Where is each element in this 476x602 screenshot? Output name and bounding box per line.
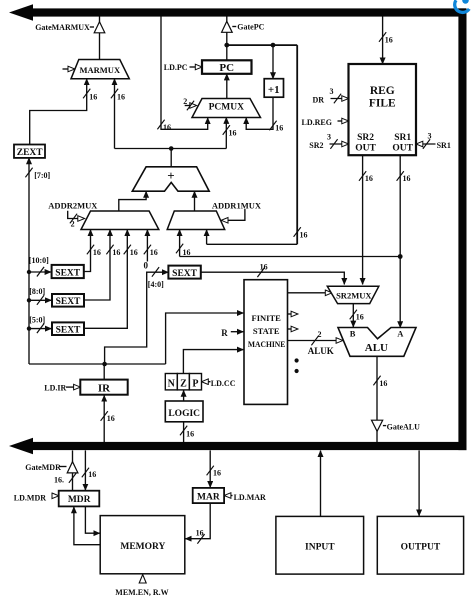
svg-text:16: 16 — [229, 128, 237, 137]
svg-text:REG: REG — [370, 85, 395, 97]
svg-text:16: 16 — [186, 430, 194, 439]
svg-text:N: N — [168, 378, 176, 389]
svg-text:LD.MAR: LD.MAR — [234, 493, 266, 502]
svg-text:LOGIC: LOGIC — [168, 409, 200, 419]
svg-text:16: 16 — [385, 36, 393, 45]
svg-text:LD.IR: LD.IR — [44, 384, 66, 393]
svg-text:SEXT: SEXT — [56, 326, 81, 336]
svg-text:MEM.EN, R.W: MEM.EN, R.W — [115, 588, 168, 597]
svg-text:INPUT: INPUT — [305, 542, 335, 552]
svg-text:MACHINE: MACHINE — [248, 339, 286, 349]
svg-text:2: 2 — [183, 97, 187, 106]
svg-text:DR: DR — [313, 95, 325, 104]
svg-text:SR2MUX: SR2MUX — [336, 290, 372, 300]
svg-text:R: R — [221, 328, 228, 338]
svg-text:16: 16 — [150, 248, 158, 257]
svg-text:16.: 16. — [54, 475, 64, 484]
svg-text:3: 3 — [428, 132, 432, 141]
svg-text:ADDR1MUX: ADDR1MUX — [212, 200, 262, 210]
svg-text:GatePC: GatePC — [237, 22, 264, 31]
svg-text:+1: +1 — [268, 84, 280, 96]
svg-text:2: 2 — [318, 330, 322, 339]
svg-text:OUT: OUT — [392, 144, 413, 154]
svg-text:SEXT: SEXT — [55, 268, 80, 278]
svg-text:Z: Z — [180, 378, 187, 389]
svg-text:16: 16 — [300, 231, 308, 240]
svg-text:16: 16 — [112, 248, 120, 257]
svg-text:MDR: MDR — [68, 495, 91, 505]
svg-text:B: B — [350, 328, 356, 338]
svg-text:SR2: SR2 — [309, 141, 323, 150]
svg-text:LD.CC: LD.CC — [211, 379, 236, 388]
svg-text:OUT: OUT — [355, 144, 376, 154]
svg-text:3: 3 — [330, 87, 334, 96]
svg-text:0: 0 — [144, 261, 149, 271]
svg-text:GateMARMUX: GateMARMUX — [35, 23, 90, 32]
svg-text:MEMORY: MEMORY — [120, 542, 165, 552]
svg-text:PC: PC — [219, 62, 234, 74]
svg-text:ALU: ALU — [365, 342, 388, 354]
svg-text:GateMDR: GateMDR — [25, 463, 61, 472]
svg-text:16: 16 — [213, 468, 221, 477]
svg-text:FINITE: FINITE — [252, 313, 282, 323]
svg-text:[7:0]: [7:0] — [34, 171, 50, 180]
svg-text:16: 16 — [107, 414, 115, 423]
svg-text:[8:0]: [8:0] — [29, 287, 45, 296]
svg-text:SR1: SR1 — [394, 133, 411, 143]
svg-text:LD.REG: LD.REG — [302, 118, 332, 127]
svg-text:16: 16 — [130, 248, 138, 257]
svg-text:SEXT: SEXT — [56, 297, 81, 307]
svg-text:P: P — [192, 378, 198, 389]
svg-text:SR1: SR1 — [437, 141, 451, 150]
svg-text:ADDR2MUX: ADDR2MUX — [48, 201, 98, 211]
svg-text:PCMUX: PCMUX — [209, 103, 244, 113]
svg-text:[5:0]: [5:0] — [29, 315, 45, 324]
svg-text:IR: IR — [98, 382, 111, 394]
svg-text:STATE: STATE — [253, 326, 280, 336]
svg-text:16: 16 — [403, 174, 411, 183]
svg-text:[10:0]: [10:0] — [29, 256, 49, 265]
svg-text:MAR: MAR — [197, 493, 220, 503]
svg-text:SEXT: SEXT — [172, 269, 197, 279]
svg-text:OUTPUT: OUTPUT — [401, 542, 441, 552]
svg-text:SR2: SR2 — [357, 133, 374, 143]
svg-text:16: 16 — [163, 123, 171, 132]
svg-text:16: 16 — [88, 470, 96, 479]
svg-text:ALUK: ALUK — [308, 346, 334, 356]
svg-text:16: 16 — [365, 174, 373, 183]
svg-text:2: 2 — [71, 220, 75, 229]
svg-text:[4:0]: [4:0] — [148, 280, 164, 289]
svg-text:LD.PC: LD.PC — [164, 63, 188, 72]
svg-text:LD.MDR: LD.MDR — [14, 493, 46, 502]
svg-text:16: 16 — [93, 248, 101, 257]
svg-text:GateALU: GateALU — [387, 423, 421, 432]
svg-text:A: A — [397, 328, 404, 338]
svg-text:16: 16 — [260, 262, 268, 271]
svg-text:16: 16 — [183, 248, 191, 257]
svg-text:FILE: FILE — [369, 98, 396, 110]
svg-text:MARMUX: MARMUX — [79, 65, 120, 75]
svg-text:16: 16 — [89, 93, 97, 102]
svg-text:16: 16 — [196, 528, 204, 537]
svg-text:16: 16 — [275, 124, 283, 133]
svg-text:16: 16 — [117, 93, 125, 102]
svg-text:ZEXT: ZEXT — [17, 148, 44, 158]
svg-text:16: 16 — [379, 379, 387, 388]
svg-text:+: + — [167, 168, 174, 183]
svg-text:16: 16 — [356, 312, 364, 321]
svg-text:3: 3 — [327, 133, 331, 142]
